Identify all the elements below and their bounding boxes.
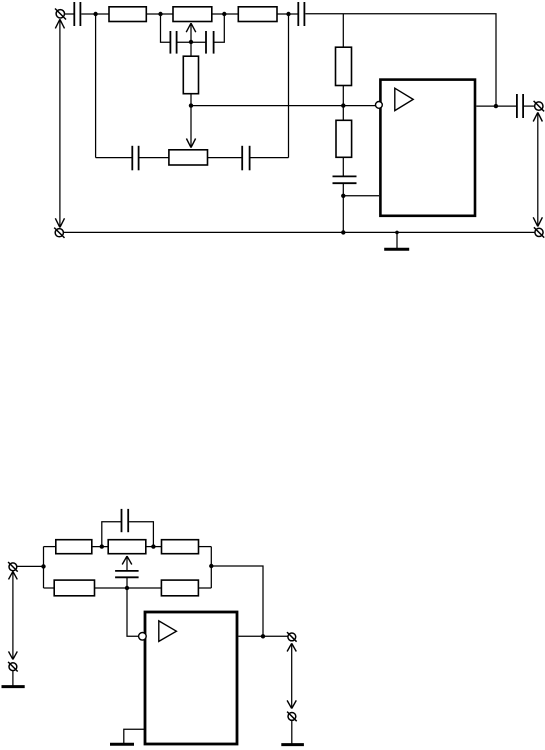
wire R11 to R12	[95, 587, 162, 589]
wire C5 down to rail	[342, 184, 344, 232]
output terminal XS2	[534, 101, 545, 112]
wire R5 to node G	[342, 86, 344, 121]
wire R12 to right node	[198, 587, 211, 589]
wire R4 down with arrow into R6	[186, 94, 195, 148]
left voltage arrow (double headed)	[55, 19, 64, 227]
right node vertical wire	[210, 547, 212, 588]
output junction	[494, 104, 498, 108]
wire R2 to R3	[212, 13, 239, 15]
wire lower output terminal to ground	[291, 720, 293, 744]
wire C2 to C3 through wiper node	[178, 41, 207, 43]
capacitor C4	[298, 2, 304, 26]
wire node B down to C2	[161, 14, 171, 42]
left node junction	[41, 564, 45, 568]
input terminal XS1	[55, 9, 66, 20]
op-amp U2	[145, 612, 237, 744]
capacitor C6	[132, 146, 138, 171]
wire bottom row left segment	[96, 157, 133, 159]
resistor R10	[162, 540, 199, 554]
wire C6 to R6	[140, 157, 169, 159]
wire input to C1	[65, 13, 75, 15]
wire up-left leg of bridge capacitor C9	[102, 522, 122, 547]
wire node F to op-amp input	[191, 105, 376, 107]
op-amp U1 triangle	[395, 88, 413, 110]
bottom row mid junction	[125, 586, 129, 590]
wire node A down to bottom T row	[95, 14, 97, 158]
cap branch left junction	[100, 544, 104, 548]
op-amp U2 inverting input circle	[139, 633, 147, 641]
lower input terminal XS8	[8, 662, 18, 672]
resistor R11	[54, 580, 94, 596]
cap branch right junction	[151, 544, 155, 548]
bottom rail wire	[63, 231, 535, 233]
wire C3 up to node C	[215, 14, 225, 42]
output terminal XS6	[287, 632, 297, 642]
wire R1 to R2	[146, 13, 173, 15]
wire C4 to output column	[305, 14, 496, 106]
feedback wire right node to output	[211, 566, 263, 636]
resistor R3	[238, 7, 277, 22]
wire op-amp U2 non-inverting input to ground	[124, 729, 145, 743]
wire C1 to R1	[81, 13, 109, 15]
resistor R5 (vertical)	[336, 47, 352, 85]
bottom-right terminal XS4	[534, 227, 544, 237]
resistor R4 (vertical, wiper leg)	[183, 56, 198, 93]
right voltage arrow (double headed)	[533, 112, 542, 226]
op-amp U2 triangle	[159, 621, 177, 642]
node A junction	[93, 12, 97, 16]
resistor R7 (vertical)	[336, 120, 352, 157]
node G junction	[341, 103, 345, 107]
ground symbol	[384, 232, 409, 249]
wire R10 to right node	[199, 546, 212, 548]
potentiometer R9	[108, 540, 146, 554]
capacitor C1	[74, 2, 80, 26]
wire lower input terminal to ground	[12, 671, 14, 686]
wiper arrow of R9	[122, 556, 132, 570]
wire C7 to node D leg	[251, 157, 289, 159]
wire branch down to R5	[342, 14, 344, 48]
wire C10 down to op-amp input	[127, 578, 139, 636]
capacitor C8	[517, 94, 523, 118]
op-amp U1	[380, 80, 475, 216]
wire bottom row left	[44, 587, 55, 589]
right node junction	[209, 564, 213, 568]
node C junction	[222, 12, 226, 16]
wire op-amp output	[476, 105, 516, 107]
wire R7 to C5	[342, 157, 344, 176]
capacitor C7	[242, 146, 249, 171]
node F junction	[189, 103, 193, 107]
wiper arrow of R2	[186, 23, 196, 56]
wire R6 to C7	[208, 157, 243, 159]
ground symbol (output side)	[281, 743, 304, 746]
wire op-amp U2 output	[238, 635, 287, 637]
wire right leg of bridge capacitor	[129, 522, 153, 547]
capacitor C5 (horizontal plates)	[333, 176, 357, 183]
potentiometer R2	[173, 7, 212, 22]
resistor R8	[56, 540, 92, 554]
node D junction	[286, 12, 290, 16]
ground symbol (op-amp U2 input)	[110, 743, 134, 746]
resistor R12	[161, 580, 198, 596]
capacitor C10 (horizontal plates)	[115, 571, 139, 577]
resistor R1	[109, 7, 146, 22]
wire left node to R8	[44, 546, 56, 548]
wire R8 to R9	[92, 546, 108, 548]
rail junction	[341, 230, 345, 234]
potentiometer R6	[169, 150, 208, 165]
lower output terminal XS7	[287, 712, 297, 722]
wire input to left node	[17, 565, 44, 567]
wiper node junction	[189, 40, 193, 44]
bottom-left terminal XS3	[54, 228, 64, 238]
wire node H to op-amp lower input	[343, 195, 379, 197]
input terminal XS5	[8, 562, 18, 572]
output junction (feedback tap)	[261, 634, 265, 638]
wire R9 to R10	[146, 546, 162, 548]
node B junction	[158, 12, 162, 16]
wire node D down to bottom T row	[288, 14, 290, 158]
node H junction	[341, 194, 345, 198]
left node vertical wire	[43, 547, 45, 588]
op-amp U1 inverting input circle	[376, 102, 383, 109]
wire C8 to output terminal	[524, 105, 535, 107]
ground symbol (input side)	[2, 685, 25, 688]
left voltage arrow (double headed, input)	[9, 571, 18, 659]
wire R3 to C4	[277, 13, 298, 15]
ground stem junction	[395, 231, 399, 235]
capacitor C2	[170, 31, 176, 54]
capacitor C9 (bridge)	[122, 509, 129, 532]
capacitor C3	[206, 31, 214, 54]
right voltage arrow (double headed, output)	[287, 643, 296, 708]
